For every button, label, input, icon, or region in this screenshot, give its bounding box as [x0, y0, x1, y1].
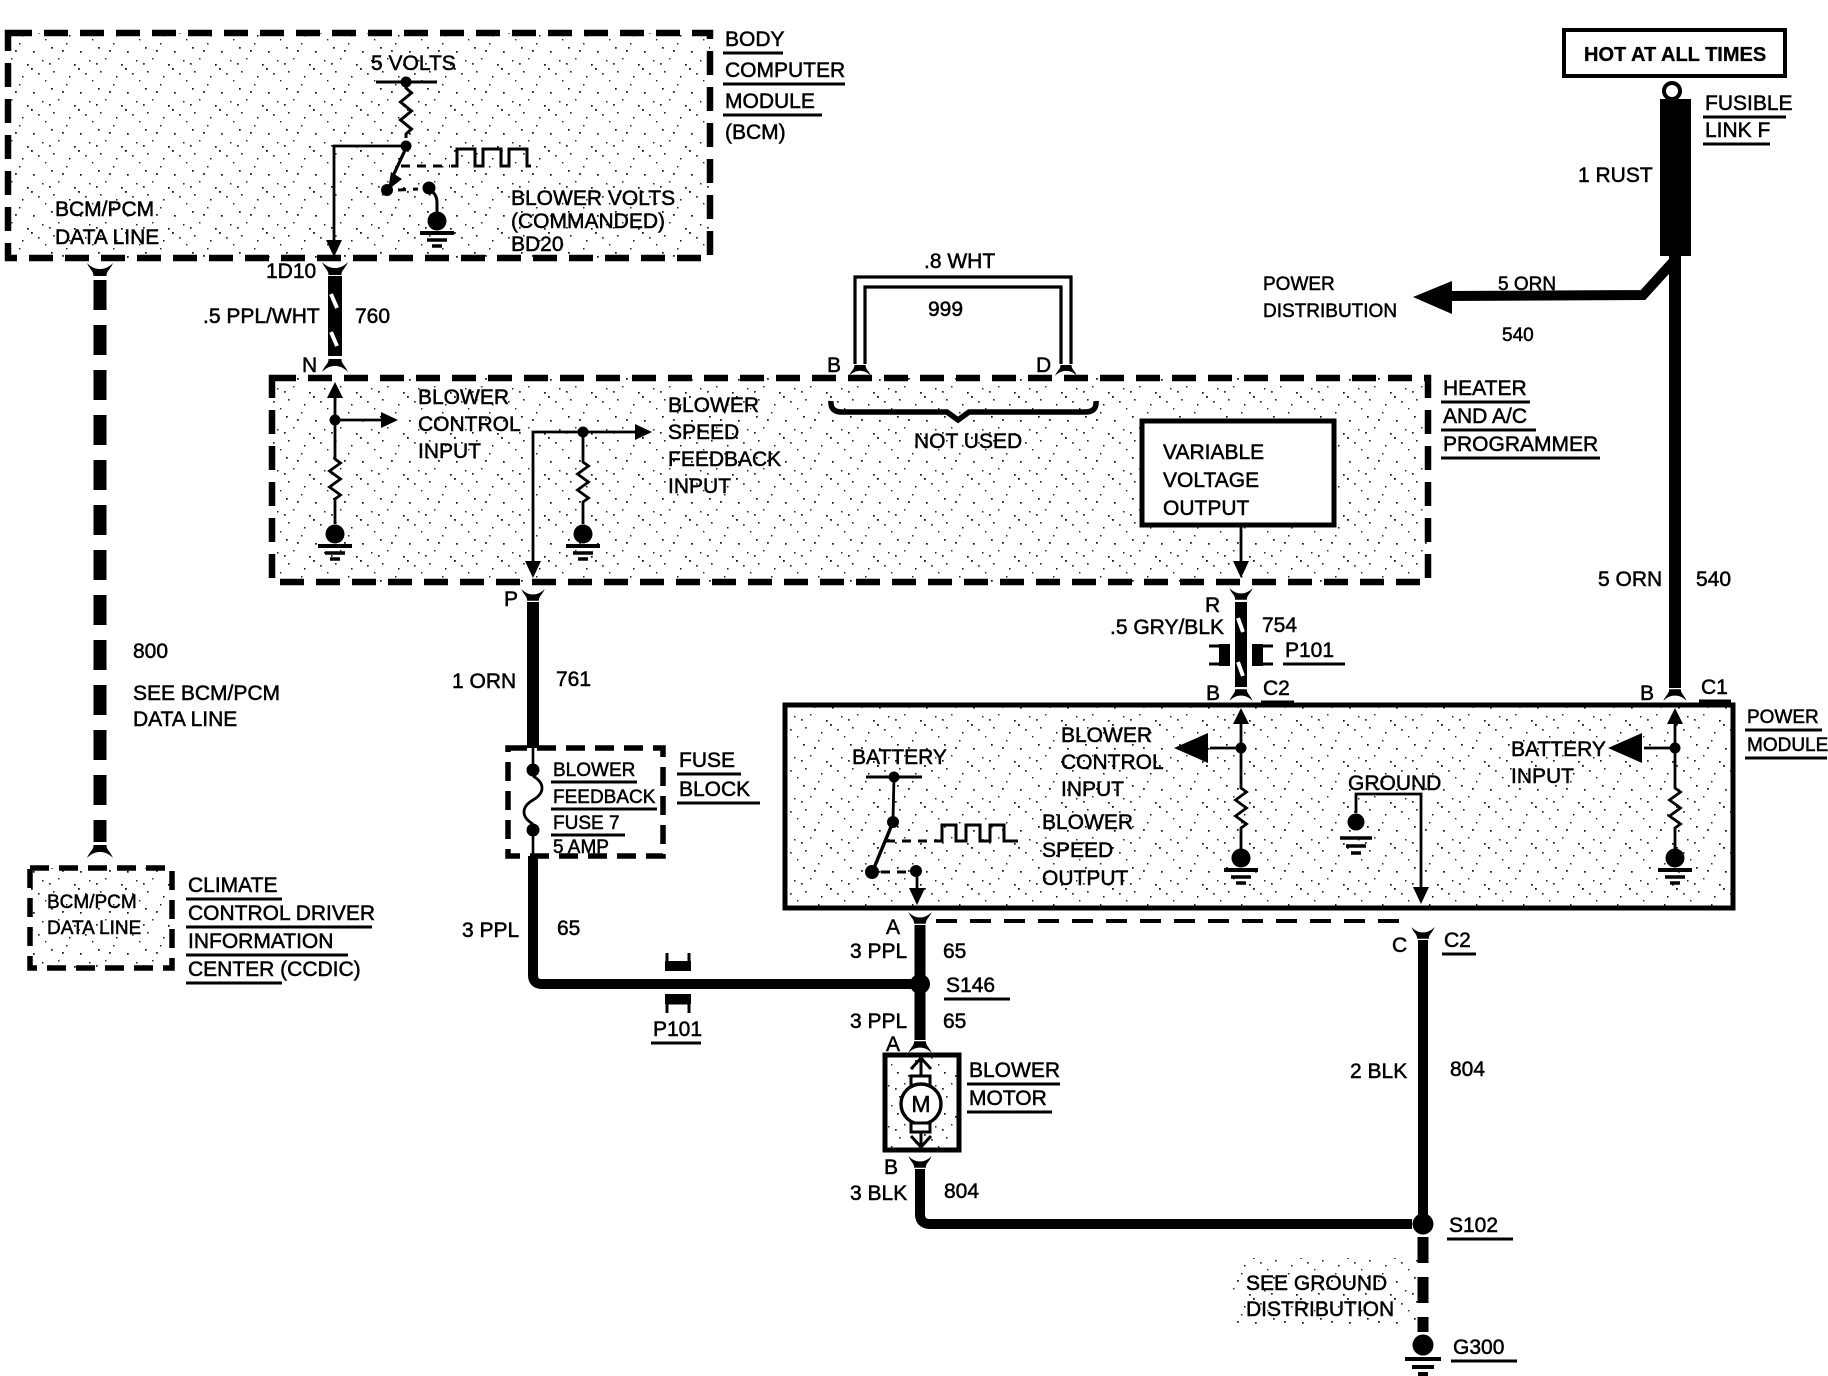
dashed link from switch to PWM waveform [401, 165, 450, 168]
node [330, 415, 341, 426]
fusible link F terminal ring [1664, 83, 1680, 99]
svg-text:VARIABLE: VARIABLE [1163, 441, 1264, 464]
svg-text:754: 754 [1262, 614, 1297, 637]
svg-text:INFORMATION: INFORMATION [188, 930, 333, 953]
motor top lead with chevron [911, 1058, 921, 1069]
ground [566, 525, 600, 560]
svg-text:MODULE: MODULE [1747, 735, 1828, 756]
svg-text:3 PPL: 3 PPL [850, 940, 907, 963]
svg-text:BLOWER: BLOWER [668, 394, 759, 417]
svg-text:BATTERY: BATTERY [1511, 738, 1606, 761]
svg-text:3 PPL: 3 PPL [462, 919, 519, 942]
svg-text:C: C [1392, 934, 1407, 957]
svg-text:999: 999 [928, 298, 963, 321]
svg-text:B: B [884, 1156, 898, 1179]
arrow: blower speed output to A [916, 872, 919, 891]
svg-text:P: P [504, 588, 518, 611]
svg-text:804: 804 [1450, 1058, 1485, 1081]
svg-text:5 VOLTS: 5 VOLTS [371, 52, 456, 75]
svg-text:804: 804 [944, 1180, 979, 1203]
svg-text:(BCM): (BCM) [725, 121, 786, 144]
svg-text:M: M [911, 1091, 930, 1117]
svg-text:SEE GROUND: SEE GROUND [1246, 1272, 1387, 1295]
dashed wire to G300 [1418, 1237, 1429, 1332]
connector P [521, 589, 544, 601]
connector B / C2 (power module) [1229, 689, 1252, 701]
svg-text:540: 540 [1502, 325, 1534, 346]
motor armature M [901, 1084, 941, 1124]
motor brush (bottom) [911, 1123, 930, 1132]
svg-text:S146: S146 [946, 974, 995, 997]
svg-text:.8 WHT: .8 WHT [924, 250, 995, 273]
svg-text:1 ORN: 1 ORN [452, 670, 516, 693]
fusible link F [1660, 99, 1691, 256]
svg-text:N: N [302, 354, 317, 377]
node: resistor bottom / switch common [401, 141, 412, 152]
svg-text:760: 760 [355, 305, 390, 328]
svg-text:B: B [1206, 682, 1220, 705]
resistor [1236, 748, 1247, 849]
svg-text:S102: S102 [1449, 1214, 1498, 1237]
switch contact dashes and output corner [881, 871, 906, 874]
svg-text:FEEDBACK: FEEDBACK [668, 448, 781, 471]
switch arm (commanded blower volts driver) [393, 148, 406, 176]
motor bottom lead with chevron [920, 1132, 923, 1147]
wire: blower control input entry (from N) [334, 396, 337, 420]
svg-text:B: B [1640, 682, 1654, 705]
svg-text:CONTROL: CONTROL [418, 413, 521, 436]
svg-text:G300: G300 [1453, 1336, 1504, 1359]
svg-text:POWER: POWER [1263, 274, 1335, 295]
ground [318, 525, 352, 560]
connector N [322, 359, 348, 372]
svg-text:BATTERY: BATTERY [852, 746, 947, 769]
node: 5V supply rail [376, 81, 437, 84]
svg-text:C2: C2 [1263, 677, 1290, 700]
svg-text:BLOWER: BLOWER [553, 760, 635, 781]
PWM square wave symbol (power module) [934, 825, 1018, 841]
svg-text:BLOWER VOLTS: BLOWER VOLTS [511, 187, 675, 210]
svg-text:65: 65 [943, 940, 966, 963]
svg-text:LINK F: LINK F [1705, 119, 1770, 142]
svg-text:P101: P101 [1285, 639, 1334, 662]
svg-text:BLOWER: BLOWER [1042, 811, 1133, 834]
svg-text:540: 540 [1696, 568, 1731, 591]
svg-text:CONTROL: CONTROL [1061, 751, 1164, 774]
arrow down to BCM pin 1D10 [326, 240, 342, 257]
svg-text:761: 761 [556, 668, 591, 691]
svg-text:HEATER: HEATER [1443, 377, 1527, 400]
svg-text:BD20: BD20 [511, 233, 564, 256]
svg-text:FEEDBACK: FEEDBACK [553, 787, 656, 808]
svg-text:SEE BCM/PCM: SEE BCM/PCM [133, 682, 280, 705]
svg-text:CENTER (CCDIC): CENTER (CCDIC) [188, 958, 361, 981]
wire staple inner [865, 287, 1061, 364]
wire staple outer [855, 277, 1071, 364]
svg-text:1 RUST: 1 RUST [1578, 164, 1653, 187]
svg-text:HOT AT ALL TIMES: HOT AT ALL TIMES [1584, 44, 1766, 66]
svg-text:INPUT: INPUT [668, 475, 731, 498]
svg-text:DATA LINE: DATA LINE [47, 918, 141, 939]
svg-text:DATA LINE: DATA LINE [133, 708, 237, 731]
in-line connector P101 (right half) [1257, 646, 1273, 664]
wire 761 [527, 602, 539, 749]
svg-text:INPUT: INPUT [1511, 765, 1574, 788]
svg-text:OUTPUT: OUTPUT [1163, 497, 1250, 520]
svg-text:DISTRIBUTION: DISTRIBUTION [1263, 301, 1397, 322]
svg-text:INPUT: INPUT [418, 440, 481, 463]
svg-text:P101: P101 [653, 1018, 702, 1041]
svg-text:INPUT: INPUT [1061, 778, 1124, 801]
PWM square wave symbol (BCM) [451, 149, 531, 166]
resistor (feedback divider) [578, 432, 589, 524]
switch contact node [398, 189, 418, 190]
svg-text:OUTPUT: OUTPUT [1042, 867, 1129, 890]
ground (BCM driver ground) [420, 212, 454, 247]
svg-text:BLOCK: BLOCK [679, 778, 750, 801]
wire 760 [328, 276, 342, 356]
connector C2 dashed outline [936, 919, 1406, 923]
connector D (programmer) [1055, 365, 1077, 376]
ground [1224, 849, 1258, 884]
svg-text:3 BLK: 3 BLK [850, 1182, 907, 1205]
svg-text:BCM/PCM: BCM/PCM [47, 892, 137, 913]
svg-text:MODULE: MODULE [725, 90, 815, 113]
svg-text:SPEED: SPEED [668, 421, 739, 444]
resistor (programmer input) [330, 420, 341, 524]
svg-text:VOLTAGE: VOLTAGE [1163, 469, 1259, 492]
arrow right to label [335, 419, 384, 422]
svg-text:DISTRIBUTION: DISTRIBUTION [1246, 1298, 1394, 1321]
wire: node to P output [533, 432, 583, 564]
svg-text:FUSE: FUSE [679, 749, 735, 772]
svg-text:POWER: POWER [1747, 707, 1819, 728]
ground [1658, 849, 1692, 884]
switch arm [874, 822, 893, 868]
svg-text:BCM/PCM: BCM/PCM [55, 198, 154, 221]
svg-text:FUSIBLE: FUSIBLE [1705, 92, 1793, 115]
connector 1D10 [322, 262, 348, 275]
svg-text:COMPUTER: COMPUTER [725, 59, 845, 82]
svg-text:(COMMANDED): (COMMANDED) [511, 210, 665, 233]
brace: not used pins [831, 401, 1096, 420]
svg-text:C1: C1 [1701, 676, 1728, 699]
svg-text:BLOWER: BLOWER [1061, 724, 1152, 747]
svg-text:AND A/C: AND A/C [1443, 405, 1527, 428]
svg-text:DATA LINE: DATA LINE [55, 226, 159, 249]
svg-text:5 ORN: 5 ORN [1598, 568, 1662, 591]
svg-text:FUSE 7: FUSE 7 [553, 813, 620, 834]
connector B (programmer) [849, 365, 871, 376]
blower control input (power module) [1240, 718, 1243, 748]
svg-text:B: B [827, 354, 841, 377]
connector A (blower motor) [908, 1041, 931, 1053]
svg-text:.5 GRY/BLK: .5 GRY/BLK [1110, 616, 1224, 639]
svg-text:3 PPL: 3 PPL [850, 1010, 907, 1033]
arrow: variable voltage output down to R [1240, 527, 1243, 564]
svg-text:BLOWER: BLOWER [969, 1059, 1060, 1082]
in-line connector P101 on wire 65 (top half) [667, 953, 689, 963]
svg-text:65: 65 [943, 1010, 966, 1033]
connector C (power module) [1411, 927, 1434, 939]
wire 540 (5 ORN) down to power module C1 [1669, 256, 1681, 688]
connector B (blower motor) [908, 1156, 931, 1168]
svg-text:BODY: BODY [725, 28, 785, 51]
svg-text:CLIMATE: CLIMATE [188, 874, 277, 897]
ground G300 [1413, 1335, 1434, 1356]
svg-text:CONTROL DRIVER: CONTROL DRIVER [188, 902, 375, 925]
wire: blower speed feedback node [578, 427, 589, 438]
svg-text:GROUND: GROUND [1348, 772, 1441, 795]
wire: node left and down to 1D10 output [334, 146, 406, 244]
svg-text:BLOWER: BLOWER [418, 386, 509, 409]
svg-text:1D10: 1D10 [266, 260, 316, 283]
in-line connector P101 (left half) [1209, 646, 1225, 664]
connector B / C1 (power module) [1663, 689, 1686, 701]
svg-text:C2: C2 [1444, 929, 1471, 952]
wire: contact to ground [429, 190, 437, 213]
svg-text:A: A [886, 916, 900, 939]
svg-text:800: 800 [133, 640, 168, 663]
resistor (BCM internal pull-up) [401, 82, 412, 138]
wire 540 branch to power distribution [1448, 262, 1673, 296]
fuse: BLOWER FEEDBACK FUSE 7, 5 AMP [532, 748, 535, 764]
svg-text:2 BLK: 2 BLK [1350, 1060, 1407, 1083]
connector R [1229, 588, 1252, 600]
wire 754 [1235, 602, 1247, 687]
in-line connector P101 (bottom half) [665, 994, 691, 1004]
svg-text:SPEED: SPEED [1042, 839, 1113, 862]
svg-text:PROGRAMMER: PROGRAMMER [1443, 433, 1598, 456]
dashed link to PWM wave [886, 840, 930, 843]
svg-text:65: 65 [557, 917, 580, 940]
svg-text:R: R [1205, 594, 1220, 617]
splice S146 [910, 974, 930, 994]
svg-text:5 AMP: 5 AMP [553, 837, 609, 858]
resistor [1670, 748, 1681, 849]
connector A (power module) [908, 912, 931, 924]
svg-text:.5 PPL/WHT: .5 PPL/WHT [203, 305, 320, 328]
svg-text:NOT USED: NOT USED [914, 430, 1022, 453]
svg-text:MOTOR: MOTOR [969, 1087, 1047, 1110]
svg-text:D: D [1036, 354, 1051, 377]
svg-text:5 ORN: 5 ORN [1498, 274, 1556, 295]
battery input (power module) [1674, 718, 1677, 748]
splice S102 [1413, 1214, 1434, 1235]
motor brush (top) [911, 1076, 930, 1085]
